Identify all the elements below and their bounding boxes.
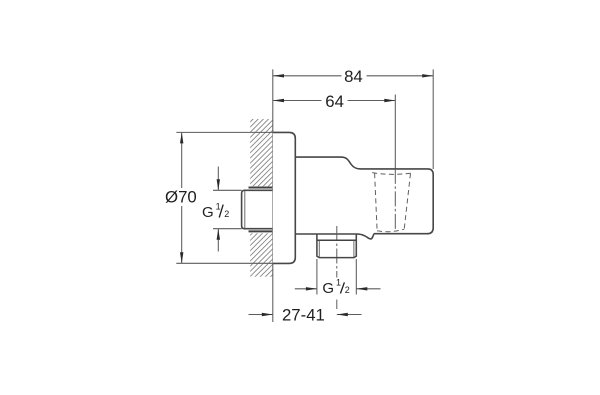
svg-text:G: G <box>202 204 214 221</box>
svg-text:G: G <box>322 280 334 297</box>
svg-text:2: 2 <box>224 209 229 219</box>
svg-text:1: 1 <box>216 201 221 211</box>
svg-text:84: 84 <box>344 67 363 86</box>
svg-text:27-41: 27-41 <box>282 305 325 324</box>
svg-text:2: 2 <box>345 285 350 295</box>
svg-text:Ø70: Ø70 <box>165 188 197 207</box>
svg-text:1: 1 <box>336 277 341 287</box>
svg-text:64: 64 <box>325 92 344 111</box>
